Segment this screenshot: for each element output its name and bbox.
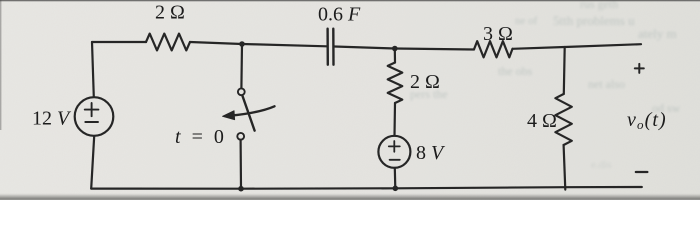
bottom node switch dot <box>238 186 244 192</box>
svg-text:vo(t): vo(t) <box>627 109 667 132</box>
wire node A down to switch <box>240 44 243 88</box>
wire 2Ω to 8V source <box>393 103 396 136</box>
switch blade <box>242 95 254 130</box>
wire 8V to bottom <box>394 168 397 189</box>
svg-text:12 V: 12 V <box>32 108 72 130</box>
voltage source 12V circle <box>75 97 114 136</box>
bottom node 8V dot <box>393 186 399 192</box>
wire top-left from source to resistor <box>92 41 146 43</box>
resistor 3Ω <box>474 41 513 57</box>
resistor 2Ω top <box>146 34 190 51</box>
node B dot <box>392 46 398 52</box>
wire node B to 3Ω <box>395 49 474 50</box>
svg-text:rus geth: rus geth <box>580 0 618 11</box>
voltage source 8V circle <box>378 136 410 168</box>
wire 4Ω to bottom <box>564 145 566 190</box>
svg-text:e.dis: e.dis <box>591 159 611 171</box>
svg-text:2 Ω: 2 Ω <box>155 2 185 24</box>
capacitor 0.6F <box>328 29 334 65</box>
svg-text:4 Ω: 4 Ω <box>527 110 557 132</box>
svg-text:0.6 F: 0.6 F <box>318 4 361 26</box>
switch t=0 contact bottom <box>237 133 244 140</box>
left rail <box>92 42 94 97</box>
svg-text:8 V: 8 V <box>416 142 446 164</box>
svg-text:the obs: the obs <box>498 64 533 78</box>
svg-text:5tth problems u: 5tth problems u <box>553 13 635 28</box>
output minus sign <box>636 171 648 173</box>
resistor 4Ω <box>555 94 571 145</box>
svg-text:ne of: ne of <box>515 15 538 27</box>
wire 3Ω to right end <box>513 44 642 49</box>
node A dot <box>239 41 245 47</box>
wire resistor to node A <box>190 42 242 44</box>
svg-text:ately m: ately m <box>638 26 677 41</box>
wire node B down to 2Ω <box>394 49 396 63</box>
right branch down from top wire <box>563 47 566 94</box>
switch t=0 contact top <box>238 88 245 95</box>
switch arrow <box>230 106 275 115</box>
resistor 2Ω middle <box>388 63 403 104</box>
svg-text:net also: net also <box>588 77 625 91</box>
output plus sign <box>635 64 644 73</box>
wire switch to bottom <box>240 140 243 189</box>
svg-text:3 Ω: 3 Ω <box>483 23 513 45</box>
wire node A to capacitor <box>242 44 327 46</box>
svg-text:t = 0: t = 0 <box>175 126 224 148</box>
svg-text:2 Ω: 2 Ω <box>410 71 440 93</box>
bottom wire <box>91 187 642 189</box>
wire capacitor to node B <box>334 47 394 49</box>
